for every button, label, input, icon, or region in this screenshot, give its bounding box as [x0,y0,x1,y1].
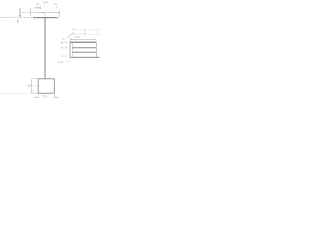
svg-text:1¼: 1¼ [28,83,32,88]
svg-text:L: L [44,6,46,8]
svg-text:1 Pc.: 1 Pc. [58,60,64,64]
svg-text:1¼: 1¼ [43,95,48,99]
svg-text:5’-0”: 5’-0” [75,35,81,39]
svg-text:R: R [17,19,20,23]
svg-text:1.: 1. [61,54,63,58]
svg-text:1 Pl: 1 Pl [43,1,48,5]
svg-text:1.: 1. [65,54,67,58]
svg-text:⅜: ⅜ [65,46,68,50]
svg-text:⅜: ⅜ [61,41,64,45]
svg-text:⅜: ⅜ [61,46,64,50]
svg-text:⅜: ⅜ [65,41,68,45]
svg-text:l: l [56,2,57,6]
svg-text:¾″: ¾″ [84,32,87,36]
svg-text:1x: 1x [36,2,39,6]
svg-text:¾″: ¾″ [84,28,87,32]
